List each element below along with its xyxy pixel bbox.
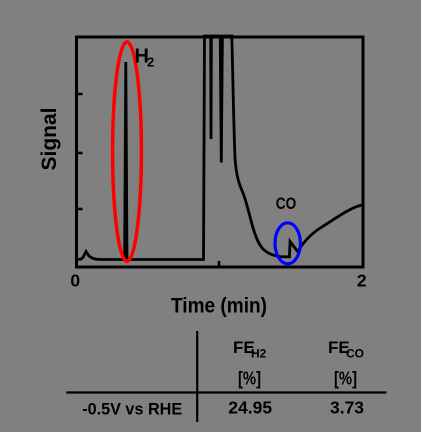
x-axis tick (1 min)	[218, 261, 221, 266]
svg-text:CO: CO	[276, 195, 297, 213]
y-axis tick 2	[78, 152, 83, 155]
plot frame	[77, 37, 364, 267]
table horizontal rule	[66, 391, 386, 393]
svg-text:2: 2	[147, 55, 154, 70]
table vertical divider	[196, 331, 198, 422]
svg-text:Signal: Signal	[38, 107, 61, 170]
svg-text:[%]: [%]	[334, 367, 357, 388]
y-axis tick 1	[78, 93, 83, 96]
svg-text:24.95: 24.95	[228, 397, 272, 417]
svg-text:3.73: 3.73	[330, 397, 364, 417]
svg-text:2: 2	[357, 271, 367, 291]
blue ellipse around CO peak	[275, 223, 300, 264]
svg-text:[%]: [%]	[238, 367, 261, 388]
svg-text:CO: CO	[346, 347, 364, 361]
svg-text:0: 0	[70, 271, 80, 291]
red ellipse around H2 peak	[113, 42, 142, 261]
svg-text:Time (min): Time (min)	[171, 294, 267, 317]
svg-text:-0.5V vs RHE: -0.5V vs RHE	[82, 400, 182, 419]
signal curve (chromatogram trace)	[78, 36, 362, 260]
svg-text:H2: H2	[251, 347, 267, 361]
y-axis tick 3	[78, 208, 83, 211]
